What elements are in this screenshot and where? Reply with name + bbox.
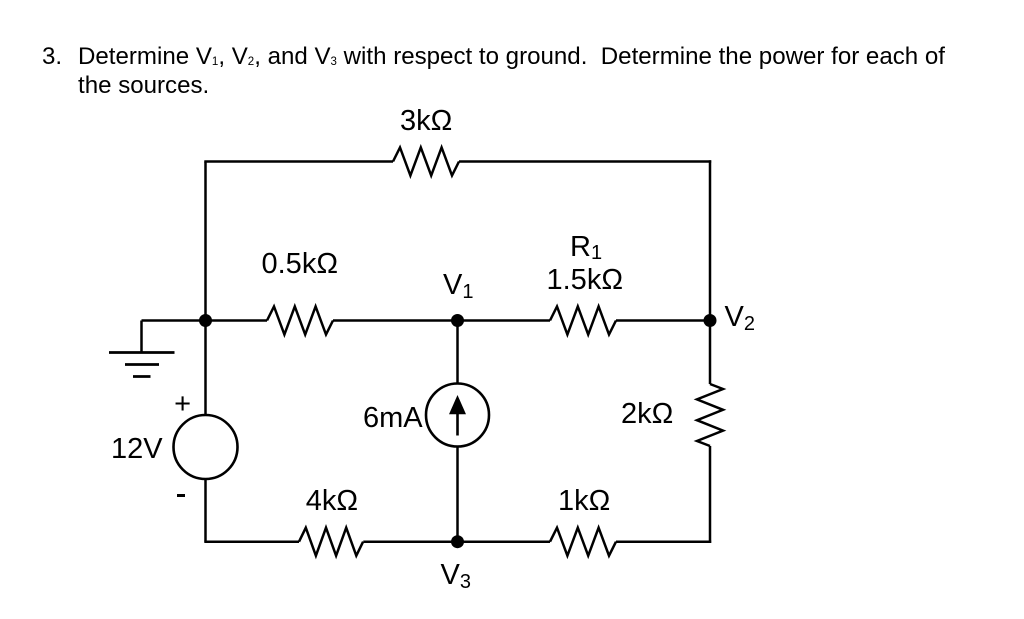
node A junction dot [199, 314, 212, 327]
resistor 4kohm (bottom rail) [299, 528, 363, 556]
wire left vertical: node A down to voltage source + [204, 321, 207, 416]
resistor 0.5kohm (middle rail) [267, 307, 333, 335]
label 3kohm value [400, 107, 452, 136]
resistor 1kohm (bottom rail) [550, 528, 616, 556]
wire bottom rail: left corner to 4k resistor [204, 540, 299, 543]
wire bottom rail: node V3 to 1k resistor [458, 540, 551, 543]
node V1 junction dot [451, 314, 464, 327]
label 4kohm value [306, 487, 358, 516]
wire middle rail: 0.5k to node V1 [333, 319, 458, 322]
node V3 label [441, 561, 471, 590]
resistor designator R1 [570, 233, 602, 262]
wire top-left vertical (node A to top rail) [204, 162, 207, 321]
wire right vertical: node V2 down to 2k resistor [709, 321, 712, 385]
wire left vertical: voltage source - down to bottom rail [204, 479, 207, 542]
wire middle rail: 1.5k to node V2 [616, 319, 710, 322]
label 2kohm value [621, 400, 673, 429]
label 1kohm value [558, 487, 610, 516]
wire bottom rail: 1k to right corner [616, 540, 711, 543]
label 0.5kohm value [262, 250, 339, 279]
node V1 label [443, 271, 473, 300]
wire center vertical: current source down to node V3 [456, 447, 459, 542]
current source arrow (pointing up) [449, 395, 466, 436]
label 12V value [111, 435, 163, 464]
wire ground stub vertical [140, 321, 143, 353]
resistor 2kohm (right vertical) [697, 384, 723, 446]
node V2 label [725, 303, 755, 332]
wire top rail left segment [204, 160, 393, 163]
problem number 3. [42, 42, 62, 71]
wire center vertical: node V1 down to current source [456, 321, 459, 385]
wire right vertical upper (top rail to node V2) [709, 160, 712, 320]
label 1.5kohm value [547, 266, 624, 295]
label 6mA value [363, 404, 423, 433]
voltage source 12V circle [174, 415, 238, 479]
node V3 junction dot [451, 535, 464, 548]
ground symbol bar 1 [109, 351, 175, 354]
resistor 3kohm (top rail) [393, 148, 459, 176]
wire ground branch horizontal [142, 319, 206, 322]
wire right vertical: 2k down to bottom rail [709, 446, 712, 543]
voltage source plus sign [174, 390, 191, 419]
ground symbol bar 2 [125, 363, 159, 366]
node V2 junction dot [704, 314, 717, 327]
wire middle rail: node V1 to 1.5k resistor [458, 319, 551, 322]
problem statement text [78, 42, 945, 100]
current source I1 6mA circle [426, 384, 489, 447]
wire middle rail: node A to 0.5k resistor [206, 319, 268, 322]
resistor R1 1.5kohm (middle rail) [550, 307, 616, 335]
ground symbol bar 3 [133, 375, 151, 378]
wire top rail right segment [459, 160, 711, 163]
voltage source minus sign [177, 494, 186, 497]
wire bottom rail: 4k to node V3 [363, 540, 457, 543]
